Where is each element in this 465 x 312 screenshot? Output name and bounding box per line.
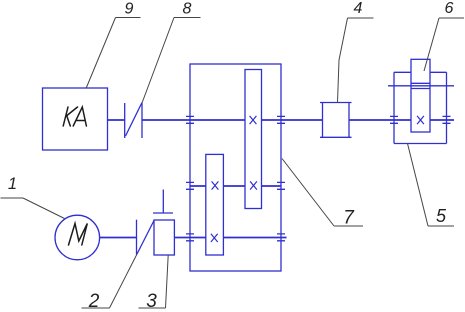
leader label 9: [86, 18, 141, 89]
digit 5: [436, 206, 447, 226]
svg-text:5: 5: [436, 206, 447, 226]
shaft II (intermediate): [190, 185, 281, 187]
bearing drum right: [443, 116, 451, 123]
gear block on shafts I-II: [245, 70, 262, 209]
bearing left wall shaft III: [186, 234, 194, 241]
bearing right wall shaft II: [277, 182, 285, 189]
brake box KA (component 9): [43, 88, 108, 150]
svg-text:2: 2: [88, 291, 100, 312]
leader label 1: [1, 198, 65, 219]
shaft III (motor input): [99, 237, 286, 239]
motor circle M (component 1): [55, 215, 100, 260]
coupling 8 (brake shaft): [125, 103, 142, 139]
bearing right wall shaft I: [277, 116, 285, 123]
fixed joint X on shaft I gear: [250, 116, 257, 124]
leader label 6: [424, 18, 464, 71]
digit 4: [354, 0, 363, 17]
drum nut lines: [388, 83, 454, 88]
shaft I (top, brake to drum): [108, 119, 455, 121]
leader label 5: [408, 144, 455, 227]
drum element (component 6): [411, 59, 430, 132]
digit 1: [8, 175, 17, 193]
leader label 8: [142, 18, 201, 104]
bearing drum left: [390, 116, 398, 123]
svg-text:6: 6: [445, 0, 454, 17]
leader label 2: [82, 254, 138, 308]
digit 3: [146, 291, 157, 312]
svg-text:9: 9: [125, 1, 134, 18]
gear block on shafts II-III: [206, 154, 224, 255]
digit 7: [343, 208, 355, 229]
fixed joint X on shaft III gear: [211, 234, 218, 242]
coupling 4 (output shaft): [320, 103, 352, 138]
coupling 2 (motor shaft): [137, 220, 155, 255]
leader label 4: [338, 18, 374, 103]
digit 6: [445, 0, 454, 17]
text M inside motor circle: [69, 224, 88, 246]
fixed joint X on shaft II left gear: [212, 181, 219, 189]
svg-text:3: 3: [146, 291, 157, 312]
bearing left wall shaft II: [186, 182, 194, 189]
svg-text:1: 1: [8, 175, 17, 193]
bearing left wall shaft I: [186, 116, 194, 123]
digit 2: [88, 291, 100, 312]
fixed joint X on drum: [417, 116, 424, 124]
digit 9: [125, 1, 134, 18]
text KA inside brake box: [63, 107, 86, 126]
svg-text:4: 4: [354, 0, 363, 17]
gearbox housing (component 7): [190, 64, 281, 271]
leader label 7: [282, 159, 363, 227]
digit 8: [183, 1, 192, 18]
drum housing (component 5): [394, 72, 447, 143]
leader label 3: [139, 255, 169, 308]
gear 3 on motor shaft: [154, 220, 174, 255]
support symbol above gear 3: [153, 190, 173, 214]
svg-text:8: 8: [183, 1, 192, 18]
svg-text:7: 7: [343, 208, 355, 229]
bearing right wall shaft III: [277, 234, 285, 241]
fixed joint X on shaft II right gear: [250, 181, 257, 189]
